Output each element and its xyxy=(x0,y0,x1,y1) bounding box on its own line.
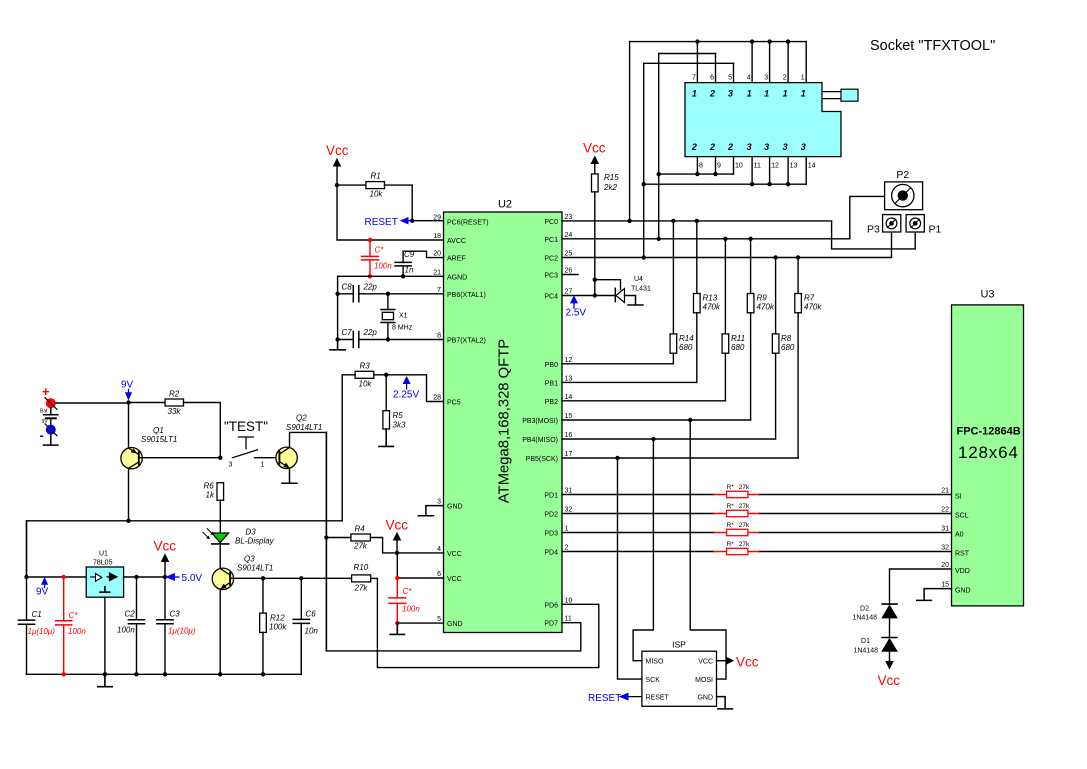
net label RESET (pin 29) xyxy=(365,217,412,228)
wire R10 right to PD6 line xyxy=(371,577,378,579)
svg-text:2.5V: 2.5V xyxy=(566,308,587,319)
svg-text:"TEST": "TEST" xyxy=(224,419,268,434)
resistor R14 680 xyxy=(670,219,694,364)
svg-text:PB1: PB1 xyxy=(545,380,558,387)
svg-text:R13: R13 xyxy=(703,294,718,303)
capacitor C* 100n (AVCC decoupling, red) xyxy=(362,238,393,279)
transistor Q3 S9014LT1 xyxy=(212,555,273,590)
svg-text:Vcc: Vcc xyxy=(326,143,349,158)
wire PC0 pin 23 to P1 xyxy=(562,221,915,249)
svg-text:20: 20 xyxy=(433,251,441,258)
capacitor C1 1u(10u) xyxy=(18,521,55,675)
ground (ISP GND) xyxy=(717,697,733,709)
transistor Q1 S9015LT1 xyxy=(121,426,220,469)
svg-text:R15: R15 xyxy=(604,173,619,182)
svg-text:128x64: 128x64 xyxy=(958,443,1019,462)
power symbol Vcc (R15) xyxy=(583,141,606,174)
svg-text:10k: 10k xyxy=(359,380,373,389)
svg-text:Vcc: Vcc xyxy=(878,673,901,688)
capacitor C6 10n xyxy=(293,578,318,674)
svg-text:C1: C1 xyxy=(32,610,42,619)
svg-text:27k: 27k xyxy=(739,503,750,510)
capacitor C7 22p xyxy=(338,328,388,347)
svg-text:Vcc: Vcc xyxy=(736,655,759,670)
U3 pin numbers xyxy=(941,488,949,589)
svg-text:R1: R1 xyxy=(371,172,381,181)
svg-text:11: 11 xyxy=(754,163,761,170)
svg-text:8: 8 xyxy=(699,163,703,170)
svg-text:1N4148: 1N4148 xyxy=(852,614,877,621)
wire PD2 pin 32 to SCL xyxy=(562,513,952,515)
svg-text:31: 31 xyxy=(565,488,573,495)
power symbol Vcc (below D1) xyxy=(878,661,901,688)
svg-text:PD3: PD3 xyxy=(544,531,558,538)
svg-text:Bat: Bat xyxy=(40,409,48,415)
svg-text:28: 28 xyxy=(433,395,441,402)
svg-text:U2: U2 xyxy=(498,199,512,211)
svg-text:R*: R* xyxy=(727,541,735,548)
ground (below C7) xyxy=(330,340,345,350)
wire TL431 ref xyxy=(595,280,621,290)
resistor R3 10k xyxy=(355,362,374,389)
wire VDD pin 20 to diodes xyxy=(890,569,952,604)
ISP pin names xyxy=(646,659,714,702)
svg-text:680: 680 xyxy=(679,343,693,352)
wire AGND column to C7 xyxy=(337,294,339,340)
svg-text:3: 3 xyxy=(783,142,788,152)
wire Vcc node to R1 and AVCC xyxy=(337,185,444,240)
svg-text:PC6(RESET): PC6(RESET) xyxy=(447,220,489,227)
svg-text:7: 7 xyxy=(692,75,696,82)
svg-text:16: 16 xyxy=(565,432,573,439)
svg-text:18: 18 xyxy=(433,233,441,240)
svg-text:D3: D3 xyxy=(246,528,257,537)
wire Q3 base line to R10 xyxy=(230,577,352,579)
node junction Vcc arrow / pin4 xyxy=(395,551,399,555)
svg-text:2: 2 xyxy=(709,88,715,98)
svg-text:TL431: TL431 xyxy=(631,286,651,293)
socket net numbers (top row, bold italic) xyxy=(692,88,806,98)
resistor R1 10k xyxy=(366,172,385,199)
svg-text:2: 2 xyxy=(783,75,787,82)
svg-text:13: 13 xyxy=(565,375,573,382)
wire R6 to D3 xyxy=(219,500,221,544)
svg-text:27k: 27k xyxy=(354,584,369,593)
svg-text:PD1: PD1 xyxy=(544,493,558,500)
svg-text:1: 1 xyxy=(565,526,569,533)
svg-text:C*: C* xyxy=(375,246,385,255)
svg-text:R10: R10 xyxy=(354,563,369,572)
net label RESET (ISP) xyxy=(588,693,642,704)
node junction AGND/C8 xyxy=(335,292,339,296)
svg-text:100n: 100n xyxy=(374,262,392,271)
svg-text:R4: R4 xyxy=(355,525,366,534)
svg-text:13: 13 xyxy=(790,163,798,170)
svg-text:23: 23 xyxy=(565,214,573,221)
svg-text:P3: P3 xyxy=(867,223,880,235)
svg-text:PB6(XTAL1): PB6(XTAL1) xyxy=(447,292,486,299)
svg-text:3: 3 xyxy=(764,75,768,82)
net label 2.5V xyxy=(566,296,587,318)
wire PD4 pin 2 to RST xyxy=(562,551,952,553)
svg-text:PC1: PC1 xyxy=(544,237,558,244)
svg-text:14: 14 xyxy=(808,163,816,170)
ground (below pin 5) xyxy=(390,623,404,634)
svg-text:C2: C2 xyxy=(125,610,136,619)
svg-text:SI: SI xyxy=(955,494,962,501)
node junction C9/AGND xyxy=(401,274,405,278)
wire net2 top link xyxy=(659,53,716,55)
svg-text:R11: R11 xyxy=(731,334,745,343)
wire R4 left xyxy=(326,537,351,539)
wire net3 bottom bus xyxy=(644,183,807,185)
svg-text:PB7(XTAL2): PB7(XTAL2) xyxy=(447,338,486,345)
svg-text:SCL: SCL xyxy=(955,513,969,520)
svg-text:R5: R5 xyxy=(393,411,404,420)
battery + terminal xyxy=(42,384,57,409)
svg-text:A0: A0 xyxy=(955,532,964,539)
svg-text:470k: 470k xyxy=(804,303,822,312)
U2 left pin names xyxy=(447,220,489,629)
svg-text:10k: 10k xyxy=(370,190,384,199)
svg-text:27k: 27k xyxy=(353,542,368,551)
svg-text:1: 1 xyxy=(692,88,697,98)
wire PD1 pin 31 to SI xyxy=(562,494,952,496)
svg-text:3: 3 xyxy=(229,462,233,469)
wire C8 to PB6(XTAL1) pin 7 xyxy=(388,293,444,295)
svg-text:ISP: ISP xyxy=(672,640,686,650)
svg-text:X1: X1 xyxy=(399,313,408,320)
svg-text:15: 15 xyxy=(941,582,949,589)
svg-text:Vcc: Vcc xyxy=(154,539,177,554)
wire ISP MISO to PB4 xyxy=(633,439,653,661)
wire net1 vertical to PC0 xyxy=(629,42,631,221)
wire net3 top link xyxy=(644,62,734,64)
svg-text:RESET: RESET xyxy=(365,217,398,228)
wire C7 to PB7(XTAL2) pin 8 xyxy=(388,339,444,341)
svg-text:Socket "TFXTOOL": Socket "TFXTOOL" xyxy=(870,38,995,54)
svg-text:22p: 22p xyxy=(363,328,378,337)
wire R4 right to VCC pin 4 xyxy=(370,538,443,553)
svg-text:32: 32 xyxy=(941,545,949,552)
U2 right pin names xyxy=(522,219,558,628)
svg-text:15: 15 xyxy=(565,413,573,420)
svg-text:27k: 27k xyxy=(739,484,750,491)
svg-text:P1: P1 xyxy=(929,223,942,235)
svg-text:680: 680 xyxy=(781,343,795,352)
wire PC1 pin 24 to P2 xyxy=(562,196,885,238)
wire D3 to Q3 collector xyxy=(219,544,221,568)
svg-text:VCC: VCC xyxy=(447,551,462,558)
svg-text:2: 2 xyxy=(709,142,715,152)
node junction at Vcc/R1 xyxy=(335,183,339,187)
switch "TEST" xyxy=(224,419,279,469)
power symbol Vcc (top left) xyxy=(326,143,349,185)
U2 right pin numbers xyxy=(565,214,573,623)
svg-text:1: 1 xyxy=(783,88,788,98)
svg-text:PC0: PC0 xyxy=(544,219,558,226)
resistor R10 27k xyxy=(352,563,371,593)
svg-text:9V: 9V xyxy=(36,587,49,598)
svg-text:12: 12 xyxy=(565,357,573,364)
battery - terminal xyxy=(40,424,58,445)
stub PC3 pin 26 xyxy=(562,274,578,276)
wire R2 to base node xyxy=(184,403,221,458)
wire PB0 pin 12 xyxy=(562,363,673,365)
svg-text:24: 24 xyxy=(565,232,573,239)
svg-text:PB3(MOSI): PB3(MOSI) xyxy=(522,418,558,425)
svg-text:FPC-12864B: FPC-12864B xyxy=(957,426,1021,438)
svg-text:R8: R8 xyxy=(781,334,792,343)
svg-text:1: 1 xyxy=(764,88,769,98)
potentiometer P2 xyxy=(885,169,923,210)
wire GND pin 5 xyxy=(397,622,443,624)
wire U1 output line xyxy=(124,576,165,578)
svg-text:AGND: AGND xyxy=(447,274,467,281)
svg-text:PB4(MISO): PB4(MISO) xyxy=(522,437,558,444)
svg-text:1μ(10μ): 1μ(10μ) xyxy=(168,627,196,636)
svg-text:100n: 100n xyxy=(117,626,135,635)
potentiometer P1 xyxy=(906,215,941,236)
svg-text:3: 3 xyxy=(801,142,806,152)
wire PB5(SCK) pin 17 xyxy=(562,457,798,459)
diode D2 1N4148 xyxy=(852,604,897,637)
connector socket TFXTOOL body xyxy=(685,83,858,157)
svg-text:PD6: PD6 xyxy=(544,602,558,609)
svg-text:R12: R12 xyxy=(270,614,285,623)
svg-text:8 MHz: 8 MHz xyxy=(392,325,413,332)
svg-text:R9: R9 xyxy=(757,294,768,303)
svg-text:5.0V: 5.0V xyxy=(182,573,203,584)
node junction R1/RESET xyxy=(410,219,414,223)
svg-text:20: 20 xyxy=(941,562,949,569)
svg-text:21: 21 xyxy=(941,488,949,495)
resistor R15 2k2 xyxy=(592,173,620,192)
resistor R5 3k3 xyxy=(383,375,406,430)
wire Q1 emitter from 9V node xyxy=(128,403,130,448)
svg-text:7: 7 xyxy=(437,287,441,294)
svg-text:MOSI: MOSI xyxy=(695,677,713,684)
ground (below rail, U1) xyxy=(98,674,112,686)
node junction 9V xyxy=(126,400,130,404)
svg-text:Q3: Q3 xyxy=(244,555,255,564)
svg-text:C6: C6 xyxy=(306,610,317,619)
svg-text:6: 6 xyxy=(437,571,441,578)
socket top pin wires xyxy=(697,42,806,83)
svg-text:2: 2 xyxy=(691,142,697,152)
svg-text:5: 5 xyxy=(728,75,732,82)
capacitor C* 100n (U1 input, red) xyxy=(56,575,87,677)
wire battery to 9V node xyxy=(56,402,129,404)
node junction X1/pin8 xyxy=(386,337,390,341)
svg-text:2: 2 xyxy=(727,142,733,152)
svg-text:U1: U1 xyxy=(99,551,108,558)
svg-text:PB0: PB0 xyxy=(545,362,558,369)
wire Q2 collector vertical to R4 and PD7 line xyxy=(325,432,327,651)
svg-text:R*: R* xyxy=(727,522,735,529)
svg-text:D2: D2 xyxy=(860,605,869,612)
svg-text:ATMega8,168,328 QFTP: ATMega8,168,328 QFTP xyxy=(497,339,513,503)
capacitor C8 22p xyxy=(338,283,388,302)
socket pin numbers (bottom row) xyxy=(699,163,816,170)
svg-text:R*: R* xyxy=(727,503,735,510)
svg-text:1μ(10μ): 1μ(10μ) xyxy=(28,627,56,636)
svg-text:1N4148: 1N4148 xyxy=(853,647,878,654)
svg-text:-: - xyxy=(40,428,44,443)
svg-text:VCC: VCC xyxy=(447,576,462,583)
display module U3 body xyxy=(952,289,1024,606)
svg-text:PD4: PD4 xyxy=(544,550,558,557)
power symbol Vcc (U1 output) xyxy=(154,539,177,578)
ground (Q2 emitter) xyxy=(282,469,297,484)
resistor R* 27k (SI line, red) xyxy=(714,484,759,498)
svg-text:2k2: 2k2 xyxy=(603,183,617,192)
svg-text:470k: 470k xyxy=(703,303,721,312)
svg-text:22p: 22p xyxy=(363,283,378,292)
svg-text:100k: 100k xyxy=(269,623,287,632)
ground (U3 GND pin 15) xyxy=(917,589,952,601)
svg-text:RESET: RESET xyxy=(646,695,670,702)
svg-text:U4: U4 xyxy=(634,276,643,283)
svg-text:PD2: PD2 xyxy=(544,512,558,519)
resistor R* 27k (SCL line, red) xyxy=(714,503,759,517)
wire net2 vertical to PC1 xyxy=(658,54,660,239)
potentiometer P3 xyxy=(867,215,901,236)
svg-text:PD7: PD7 xyxy=(544,621,558,628)
U3 pin names xyxy=(955,494,971,595)
svg-text:GND: GND xyxy=(697,695,713,702)
svg-text:1: 1 xyxy=(261,462,265,469)
svg-text:C*: C* xyxy=(403,587,413,596)
wire R15 to PC4 pin 27 xyxy=(562,192,615,296)
svg-text:S9014LT1: S9014LT1 xyxy=(237,564,273,573)
svg-text:RST: RST xyxy=(955,551,970,558)
svg-text:470k: 470k xyxy=(757,303,775,312)
svg-text:100n: 100n xyxy=(68,627,86,636)
wire PD6 pin 10 xyxy=(377,579,598,668)
svg-text:1: 1 xyxy=(747,88,752,98)
svg-text:VDD: VDD xyxy=(955,568,970,575)
svg-text:Vcc: Vcc xyxy=(583,141,606,156)
svg-text:3: 3 xyxy=(764,142,769,152)
svg-text:12: 12 xyxy=(771,163,779,170)
svg-text:25: 25 xyxy=(565,251,573,258)
svg-text:VCC: VCC xyxy=(698,659,713,666)
node junction AGND/C7 xyxy=(335,337,339,341)
svg-text:14: 14 xyxy=(565,394,573,401)
svg-text:R7: R7 xyxy=(804,294,815,303)
shunt regulator U4 TL431 xyxy=(615,276,651,303)
wire PB1 pin 13 xyxy=(562,381,697,383)
resistor R4 27k xyxy=(351,525,371,551)
resistor R8 680 xyxy=(772,255,795,439)
wire net2 bottom bus xyxy=(659,173,734,175)
svg-text:R3: R3 xyxy=(360,362,371,371)
svg-text:RESET: RESET xyxy=(588,693,621,704)
svg-text:8: 8 xyxy=(437,333,441,340)
svg-text:3: 3 xyxy=(728,88,733,98)
wire PC2 pin 25 to P3 xyxy=(562,232,892,258)
svg-text:11: 11 xyxy=(565,616,572,623)
svg-text:9V: 9V xyxy=(121,380,134,391)
svg-text:C7: C7 xyxy=(342,328,353,337)
svg-text:C8: C8 xyxy=(342,283,353,292)
wire R3 right to PC5 pin 28 xyxy=(374,375,444,402)
node junction X1/pin7 xyxy=(386,292,390,296)
svg-text:GND: GND xyxy=(447,621,463,628)
svg-text:680: 680 xyxy=(731,343,745,352)
svg-text:10: 10 xyxy=(735,163,743,170)
svg-text:27: 27 xyxy=(565,289,573,296)
resistor R* 27k (A0 line, red) xyxy=(714,522,759,536)
svg-text:AVCC: AVCC xyxy=(447,238,466,245)
ground (GND pin 3) xyxy=(418,506,443,516)
svg-text:21: 21 xyxy=(433,269,441,276)
svg-text:33k: 33k xyxy=(168,407,182,416)
voltage regulator U1 78L05 xyxy=(86,551,123,598)
svg-text:17: 17 xyxy=(565,451,573,458)
wire PB2 pin 14 xyxy=(562,400,725,402)
net label 2.25V xyxy=(393,377,419,401)
wire ISP SCK to PB5 xyxy=(618,458,642,679)
capacitor C9 1n xyxy=(395,250,444,277)
svg-text:SCK: SCK xyxy=(646,677,661,684)
wire PB4(MISO) pin 16 xyxy=(562,438,776,440)
microcontroller U2 body xyxy=(444,199,563,633)
svg-text:MISO: MISO xyxy=(646,659,664,666)
resistor R9 470k xyxy=(747,237,775,420)
svg-text:BL-Display: BL-Display xyxy=(235,537,275,546)
svg-text:PC4: PC4 xyxy=(544,294,558,301)
capacitor C* 100n (VCC decoupling, red) xyxy=(389,576,420,626)
wire U1 ground column xyxy=(104,597,106,674)
svg-text:C3: C3 xyxy=(170,610,181,619)
svg-text:3: 3 xyxy=(437,499,441,506)
svg-text:78L05: 78L05 xyxy=(93,560,113,567)
svg-text:U3: U3 xyxy=(980,289,994,301)
capacitor C3 1u(10u) xyxy=(157,577,196,677)
svg-text:PC5: PC5 xyxy=(447,400,461,407)
svg-text:9: 9 xyxy=(717,163,721,170)
net label 5.0V xyxy=(167,573,203,584)
svg-text:Q1: Q1 xyxy=(153,426,164,435)
svg-text:PC3: PC3 xyxy=(544,273,558,280)
svg-text:PC2: PC2 xyxy=(544,256,558,263)
svg-text:R*: R* xyxy=(727,484,735,491)
svg-text:P2: P2 xyxy=(896,169,909,181)
resistor R7 470k xyxy=(795,255,823,458)
wire PD7 pin 11 xyxy=(326,432,580,651)
power symbol Vcc (U2 supply) xyxy=(386,518,409,553)
svg-text:1n: 1n xyxy=(405,266,414,275)
svg-text:S9015LT1: S9015LT1 xyxy=(141,435,177,444)
svg-text:1: 1 xyxy=(801,75,805,82)
resistor R* 27k (RST line, red) xyxy=(714,541,759,555)
wire Q2 collector xyxy=(290,432,327,447)
svg-text:R2: R2 xyxy=(169,390,180,399)
wire net3 vertical to PC2 xyxy=(643,63,645,257)
transistor Q2 S9014LT1 xyxy=(276,414,322,469)
svg-text:AREF: AREF xyxy=(447,256,466,263)
svg-text:2.25V: 2.25V xyxy=(393,390,419,401)
svg-text:S9014LT1: S9014LT1 xyxy=(286,423,322,432)
svg-text:4: 4 xyxy=(747,75,751,82)
svg-text:1k: 1k xyxy=(206,491,215,500)
node junction base/switch/R6 xyxy=(218,456,222,460)
svg-text:Vcc: Vcc xyxy=(386,518,409,533)
svg-text:100n: 100n xyxy=(402,605,420,614)
power symbol Vcc (ISP) xyxy=(717,655,759,670)
